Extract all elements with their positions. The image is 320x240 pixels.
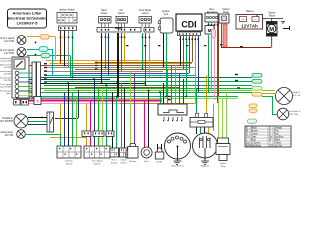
- svg-text:Horn: Horn: [112, 159, 118, 162]
- svg-text:LF200GY-5: LF200GY-5: [17, 21, 38, 26]
- svg-text:12V 18/5W: 12V 18/5W: [293, 95, 300, 97]
- svg-text:Coil: Coil: [164, 13, 169, 16]
- svg-text:lamps: lamps: [101, 12, 108, 15]
- svg-text:12V 3W: 12V 3W: [4, 134, 13, 137]
- svg-text:Horn: Horn: [144, 160, 150, 163]
- svg-text:Spark: Spark: [220, 162, 227, 165]
- svg-text:Motor: Motor: [269, 15, 275, 18]
- svg-text:Turn Signal: Turn Signal: [91, 160, 103, 163]
- svg-text:12V2W: 12V2W: [4, 80, 12, 82]
- svg-text:12V7Ah: 12V7Ah: [241, 24, 258, 29]
- svg-text:Plug: Plug: [221, 166, 226, 168]
- svg-text:12V 10W: 12V 10W: [4, 52, 15, 55]
- svg-text:Blk/White: Blk/White: [251, 145, 262, 148]
- svg-text:Relay: Relay: [223, 11, 230, 14]
- svg-text:12V 10W: 12V 10W: [4, 40, 15, 43]
- svg-text:lamp: lamp: [6, 93, 12, 95]
- svg-text:Left Rear Signal: Left Rear Signal: [289, 110, 300, 113]
- svg-text:12V2W: 12V2W: [4, 74, 12, 76]
- svg-text:Dimmer: Dimmer: [65, 160, 73, 163]
- svg-text:Switch: Switch: [94, 162, 101, 165]
- svg-text:lamp 12V2W: lamp 12V2W: [0, 61, 12, 63]
- svg-text:Switch: Switch: [66, 162, 73, 165]
- svg-text:12V2W: 12V2W: [4, 67, 12, 69]
- svg-text:M: M: [269, 27, 274, 33]
- svg-text:Battery: Battery: [246, 10, 254, 13]
- svg-text:Switch: Switch: [111, 161, 118, 164]
- svg-text:Diode: Diode: [157, 162, 163, 164]
- svg-text:Magneto: Magneto: [201, 165, 210, 168]
- svg-text:Flasher: Flasher: [129, 160, 137, 163]
- svg-text:lamp 12V2W: lamp 12V2W: [0, 87, 12, 89]
- svg-text:12V 10W: 12V 10W: [289, 114, 299, 116]
- svg-text:G/Y: G/Y: [269, 145, 274, 148]
- svg-text:switch: switch: [118, 12, 125, 15]
- svg-text:Ignition Switch: Ignition Switch: [59, 9, 75, 12]
- svg-text:Gear Sensor: Gear Sensor: [171, 165, 184, 168]
- svg-text:Grn/Yel: Grn/Yel: [274, 145, 282, 148]
- svg-text:Clutch: Clutch: [120, 159, 127, 162]
- svg-text:Switch: Switch: [120, 161, 127, 164]
- svg-text:CDI: CDI: [181, 20, 196, 30]
- svg-text:M: M: [208, 28, 212, 33]
- svg-text:switch: switch: [142, 12, 149, 15]
- svg-text:Brake/Tail lamp: Brake/Tail lamp: [293, 91, 300, 94]
- svg-text:12V 35/35W: 12V 35/35W: [0, 120, 14, 123]
